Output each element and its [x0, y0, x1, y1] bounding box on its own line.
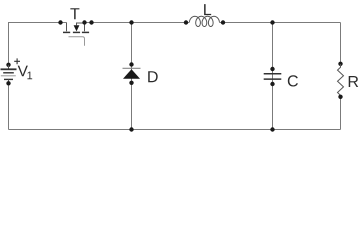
label L	[204, 4, 211, 15]
voltage source V1	[1, 58, 33, 85]
gate lead of T	[69, 37, 85, 46]
wire top rail right segment	[219, 22, 340, 24]
node top capacitor junction	[270, 20, 274, 24]
wire top rail middle segment	[85, 22, 190, 24]
label V1 subscript 1	[27, 72, 32, 80]
node bottom capacitor junction	[270, 127, 274, 131]
wire right vertical lower	[340, 97, 342, 130]
label T	[70, 8, 79, 19]
node top diode junction	[129, 20, 133, 24]
capacitor C	[264, 67, 298, 87]
polarity plus sign	[14, 58, 20, 64]
wire bottom rail	[9, 129, 341, 131]
diode D branch wire	[131, 23, 133, 130]
inductor L	[184, 4, 225, 26]
label D	[148, 71, 157, 82]
wire left vertical lower	[8, 83, 10, 130]
diode D	[123, 62, 158, 85]
label V1	[18, 66, 28, 77]
label R	[349, 76, 359, 87]
wire right vertical upper	[340, 23, 342, 65]
wire left vertical upper	[8, 22, 10, 65]
resistor R	[338, 62, 359, 99]
capacitor C branch wire	[272, 23, 274, 130]
wire top rail left segment	[9, 22, 67, 24]
node bottom diode junction	[129, 127, 133, 131]
label C	[288, 75, 298, 86]
transistor T	[58, 8, 93, 46]
